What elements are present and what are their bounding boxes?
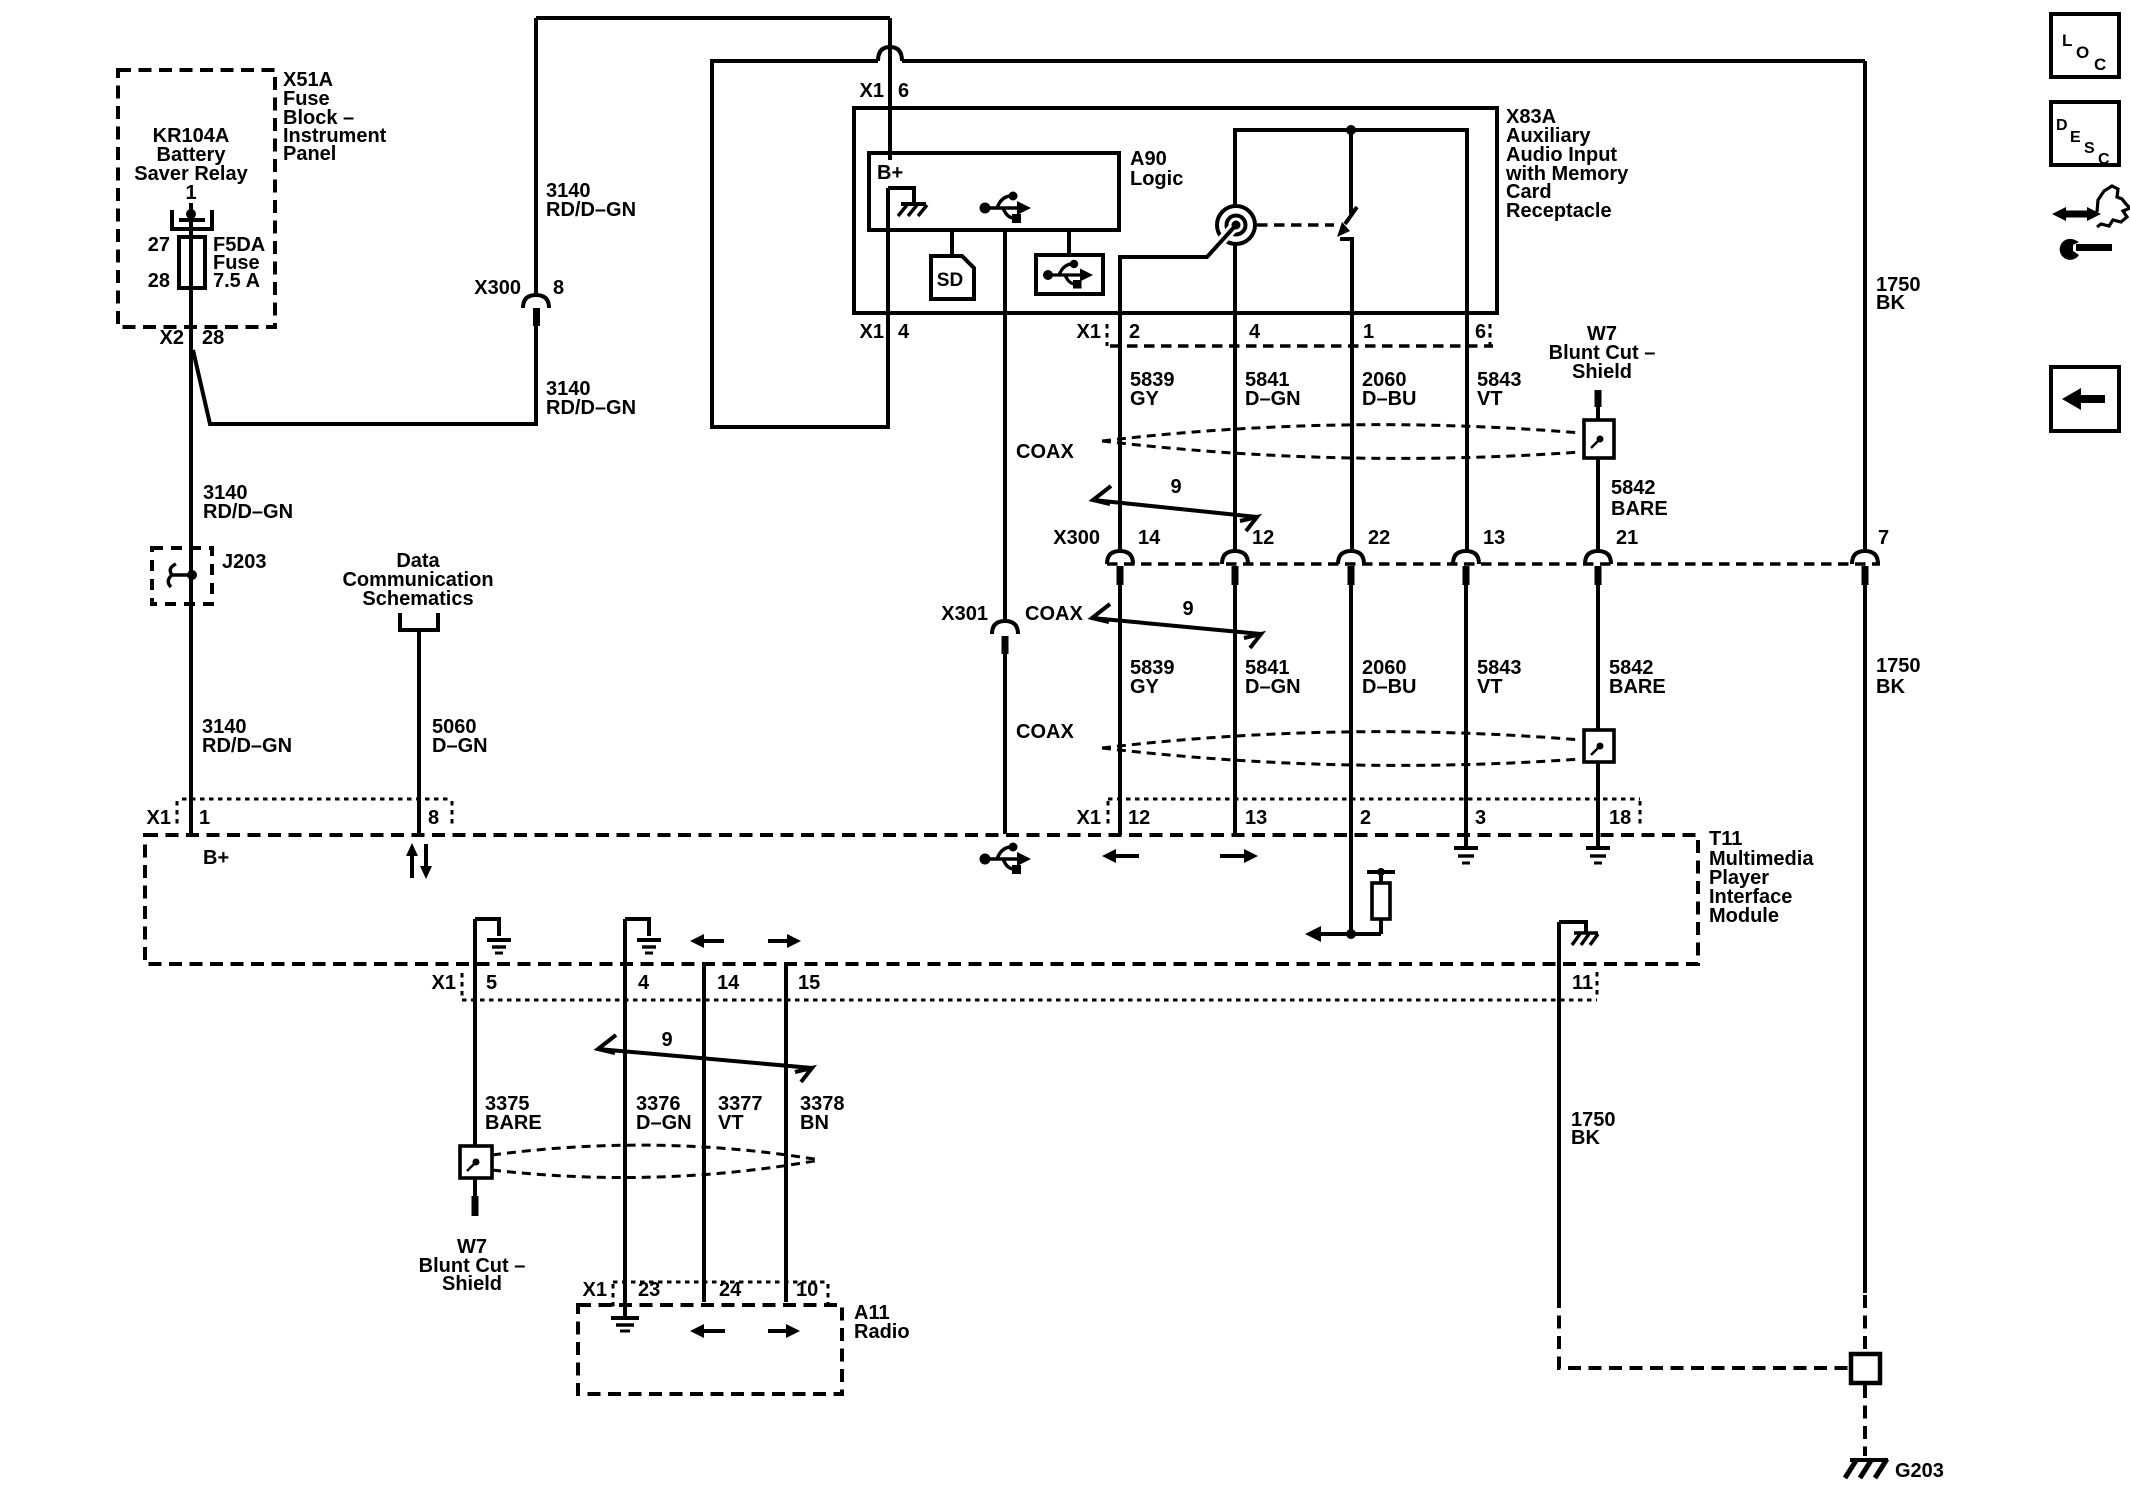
wire label 3140 RD/D-GN (below X300 8) <box>546 378 636 419</box>
svg-text:C: C <box>2094 55 2106 74</box>
LOC icon <box>2051 14 2119 77</box>
wire 5841 row 2 <box>1233 585 1237 835</box>
fuse block X51A dashed box <box>118 70 275 327</box>
wire label 3377 VT <box>718 1093 763 1134</box>
svg-text:SD: SD <box>937 270 963 291</box>
arrow left (pin 14) <box>690 934 724 948</box>
USB symbol in A90 <box>980 192 1032 224</box>
wire label 3378 BN <box>800 1093 845 1134</box>
svg-text:Logic: Logic <box>1130 168 1183 190</box>
pin 4 ground (in T11) <box>625 919 661 953</box>
svg-text:X1: X1 <box>1077 807 1101 829</box>
svg-text:RD/D–GN: RD/D–GN <box>546 199 636 221</box>
wire USB data (to X301) <box>1003 230 1007 621</box>
svg-text:9: 9 <box>1182 598 1193 620</box>
svg-text:12: 12 <box>1128 807 1150 829</box>
svg-text:5842: 5842 <box>1611 477 1656 499</box>
switch blade <box>1337 207 1357 551</box>
termination resistor branch (pin 2) <box>1305 868 1395 942</box>
USB receptacle stub wire <box>1067 230 1071 255</box>
wire hop over crossing <box>878 47 902 61</box>
svg-text:1750: 1750 <box>1876 655 1921 677</box>
svg-text:12: 12 <box>1252 527 1274 549</box>
pin 11 label and bracket <box>1572 972 1597 999</box>
X300 terminal pin 13 <box>1453 551 1479 585</box>
svg-text:X1: X1 <box>1077 321 1101 343</box>
fuse F5DA <box>179 237 205 288</box>
wire label 3140 RD/D-GN (below J203) <box>202 716 292 757</box>
A11 radio labels <box>854 1302 910 1343</box>
shield termination box (top) <box>1584 420 1614 458</box>
wire label 5843 VT (row 2) <box>1477 657 1522 698</box>
svg-text:Schematics: Schematics <box>362 588 473 610</box>
svg-text:6: 6 <box>1475 321 1486 343</box>
relay KR104A contact <box>172 209 212 229</box>
T11 module labels <box>1709 828 1814 927</box>
svg-text:X2: X2 <box>160 327 184 349</box>
wire label 1750 BK (pin 11 run) <box>1571 1109 1616 1149</box>
svg-text:COAX: COAX <box>1025 603 1083 625</box>
shield termination box (row 2) <box>1584 730 1614 762</box>
svg-text:8: 8 <box>428 807 439 829</box>
wire label 1750 BK (upper) <box>1876 274 1921 314</box>
svg-text:BARE: BARE <box>485 1112 542 1134</box>
svg-text:RD/D–GN: RD/D–GN <box>203 501 293 523</box>
jack tip wire to pin 2 <box>1120 225 1236 551</box>
svg-text:D–GN: D–GN <box>432 735 488 757</box>
svg-text:28: 28 <box>148 270 170 292</box>
svg-text:VT: VT <box>1477 676 1503 698</box>
SD card receptacle <box>931 256 974 299</box>
wire 3140 from top to X300 8 <box>534 18 538 295</box>
svg-text:D–BU: D–BU <box>1362 388 1416 410</box>
svg-text:10: 10 <box>796 1279 818 1301</box>
svg-text:7: 7 <box>1878 527 1889 549</box>
G203 ground symbol <box>1845 1459 1888 1478</box>
fuse value label F5DA Fuse 7.5 A <box>213 234 265 292</box>
T11 X1 left pin labels <box>147 807 440 829</box>
svg-text:5: 5 <box>486 972 497 994</box>
svg-text:VT: VT <box>1477 388 1503 410</box>
X300 terminal pin 22 <box>1338 551 1364 585</box>
wire ground bus (X83A pin 4 loop to right side) <box>712 61 1865 427</box>
svg-text:Shield: Shield <box>442 1273 502 1295</box>
wire USB below X301 <box>1003 654 1007 834</box>
svg-text:11: 11 <box>1572 972 1593 994</box>
wire 5839 row 2 <box>1118 585 1122 835</box>
svg-text:22: 22 <box>1368 527 1390 549</box>
svg-text:2: 2 <box>1360 807 1371 829</box>
wire 3140 RD/D-GN main vertical <box>189 203 193 835</box>
service icon (car with arrow and wrench) <box>2052 186 2130 260</box>
X51A fuse block label <box>283 69 387 165</box>
wire 1750 BK from pin 11 <box>1557 922 1561 1295</box>
svg-text:X1: X1 <box>432 972 456 994</box>
wire label 5841 D-GN (row 1) <box>1245 369 1301 410</box>
svg-text:BK: BK <box>1876 676 1905 698</box>
wire label 5843 VT (row 1) <box>1477 369 1522 410</box>
svg-text:D–GN: D–GN <box>1245 676 1301 698</box>
wire label 5839 GY (row 2) <box>1130 657 1175 698</box>
svg-text:B+: B+ <box>877 162 903 184</box>
wire label 5842 BARE (row 2) <box>1609 657 1666 698</box>
connector X2 pin 28 labels <box>160 327 225 349</box>
svg-text:X301: X301 <box>941 603 988 625</box>
wire top power horizontal <box>536 16 890 20</box>
X83A labels <box>1505 106 1629 222</box>
connector X300 row dashed line <box>1107 562 1880 565</box>
KR104A battery saver relay label <box>134 125 248 204</box>
data communication schematics label <box>342 550 493 610</box>
shield ellipse (row 1) <box>1102 425 1581 459</box>
X300 terminal pin 14 <box>1107 551 1133 585</box>
svg-text:18: 18 <box>1609 807 1631 829</box>
X300 terminal pin 12 <box>1222 551 1248 585</box>
T11 X1 connector row (right segment pins 12-18) <box>1108 799 1640 827</box>
dashed ground run to G203 junction <box>1559 1295 1850 1368</box>
shield termination box (bottom W7) <box>460 1146 492 1178</box>
serial data up/down arrows (pin 8) <box>406 843 432 879</box>
svg-text:23: 23 <box>638 1279 660 1301</box>
USB symbol in receptacle <box>1043 260 1093 289</box>
svg-text:D–BU: D–BU <box>1362 676 1416 698</box>
wire 3377 VT <box>702 964 706 1302</box>
svg-text:J203: J203 <box>222 551 267 573</box>
svg-text:Radio: Radio <box>854 1321 910 1343</box>
svg-text:6: 6 <box>898 80 909 102</box>
svg-text:9: 9 <box>661 1029 672 1051</box>
connector X1 row dashed line <box>1107 324 1493 346</box>
wire label 3375 BARE <box>485 1093 542 1134</box>
A11 X1 connector row <box>613 1282 828 1308</box>
audio jack connector symbol <box>1217 206 1255 244</box>
twisted cable slash 2 <box>1092 604 1261 648</box>
wire 5060 D-GN <box>417 630 421 835</box>
svg-text:1: 1 <box>185 182 196 204</box>
svg-text:X1: X1 <box>147 807 171 829</box>
switch wire from junction <box>1349 130 1353 214</box>
svg-text:E: E <box>2070 129 2081 146</box>
arrow right (pin 15) <box>768 934 801 948</box>
svg-text:X1: X1 <box>860 321 884 343</box>
X300 row labels <box>1053 527 1889 549</box>
T11 X1 bottom connector row <box>462 973 1597 1000</box>
svg-text:3: 3 <box>1475 807 1486 829</box>
wire label 5060 D-GN <box>432 716 488 757</box>
svg-text:VT: VT <box>718 1112 744 1134</box>
shield ellipse (row 2) <box>1102 732 1581 766</box>
svg-text:8: 8 <box>553 277 564 299</box>
wire 5842 shield (to X300 21) <box>1596 458 1600 551</box>
svg-text:4: 4 <box>1249 321 1261 343</box>
W7 blunt cut stub (bottom) <box>472 1178 479 1216</box>
A90 internal chassis ground <box>888 188 927 216</box>
DESC icon <box>2051 102 2119 168</box>
svg-text:RD/D–GN: RD/D–GN <box>202 735 292 757</box>
pin 11 internal chassis ground <box>1559 922 1598 945</box>
fuse pin labels 27 28 <box>148 234 170 292</box>
G203 junction block <box>1851 1354 1880 1383</box>
A11 radio dashed box <box>578 1305 842 1394</box>
wire B+ feed vertical <box>888 18 892 160</box>
wire label 3140 RD/D-GN (below X2 28) <box>203 482 293 523</box>
wire 3378 BN <box>784 964 788 1302</box>
splice J203 symbol <box>168 564 197 587</box>
dashed ground run right side <box>1863 1295 1867 1456</box>
A11 pin labels <box>583 1279 819 1301</box>
wire 5843 row 2 <box>1464 585 1468 847</box>
connector X301 terminal <box>992 621 1018 654</box>
svg-text:X1: X1 <box>583 1279 607 1301</box>
wire label 2060 D-BU (row 2) <box>1362 657 1416 698</box>
svg-text:14: 14 <box>717 972 740 994</box>
X300 terminal pin 21 <box>1585 551 1611 585</box>
data communication bracket <box>400 613 438 630</box>
svg-text:X300: X300 <box>474 277 521 299</box>
connector X1 pin 4 labels (X83A bottom left) <box>860 321 910 343</box>
svg-text:BN: BN <box>800 1112 829 1134</box>
ground (pin 18) <box>1586 848 1610 863</box>
arrow right in A11 (pin 10) <box>768 1324 800 1338</box>
wire 5842 row 2 lower <box>1596 762 1600 847</box>
X83A auxiliary audio input box <box>854 108 1497 313</box>
USB symbol at T11 <box>980 843 1032 875</box>
wire label 3376 D-GN <box>636 1093 692 1134</box>
jack loop wire <box>1235 130 1467 551</box>
svg-text:D–GN: D–GN <box>636 1112 692 1134</box>
svg-text:13: 13 <box>1483 527 1505 549</box>
svg-text:21: 21 <box>1616 527 1638 549</box>
svg-text:GY: GY <box>1130 388 1160 410</box>
W7 blunt cut shield labels (top) <box>1549 323 1656 383</box>
svg-text:COAX: COAX <box>1016 721 1074 743</box>
switch mechanical dashed link <box>1257 223 1334 226</box>
svg-text:BARE: BARE <box>1609 676 1666 698</box>
svg-text:C: C <box>2098 151 2110 168</box>
svg-text:G203: G203 <box>1895 1460 1944 1482</box>
svg-text:S: S <box>2084 140 2095 157</box>
svg-text:COAX: COAX <box>1016 441 1074 463</box>
svg-text:4: 4 <box>898 321 910 343</box>
W7 blunt cut stub (top) <box>1595 390 1602 407</box>
svg-text:B+: B+ <box>203 847 229 869</box>
T11 X1 right pin labels <box>1077 807 1632 829</box>
T11 X1 connector row (left segment pins 1,8) <box>177 799 452 827</box>
pin 5 ground (in T11) <box>475 919 511 953</box>
wire label 2060 D-BU (row 1) <box>1362 369 1416 410</box>
svg-text:2: 2 <box>1129 321 1140 343</box>
wire label 5842 BARE (row 1) <box>1611 477 1668 520</box>
svg-text:Receptacle: Receptacle <box>1506 200 1612 222</box>
svg-text:14: 14 <box>1138 527 1161 549</box>
wire label 5841 D-GN (row 2) <box>1245 657 1301 698</box>
SD card stub wire <box>950 230 954 256</box>
wire 5842 row 2 upper <box>1596 585 1600 730</box>
wire label 1750 BK (row 2) <box>1876 655 1921 698</box>
T11 multimedia player interface module dashed box <box>145 835 1698 964</box>
wire 2060 row 2 <box>1349 585 1353 934</box>
wire below jack (pin 4 / 5841) <box>1233 245 1237 551</box>
svg-text:24: 24 <box>719 1279 742 1301</box>
svg-text:RD/D–GN: RD/D–GN <box>546 397 636 419</box>
svg-text:A90: A90 <box>1130 148 1167 170</box>
svg-text:9: 9 <box>1170 476 1181 498</box>
A90 logic label <box>1130 148 1183 190</box>
X300 terminal pin 7 <box>1852 551 1878 585</box>
svg-text:D–GN: D–GN <box>1245 388 1301 410</box>
splice J203 dashed box <box>152 548 212 604</box>
wire 1750 BK right side <box>1863 61 1867 1293</box>
wire branch from splice to X300 pin 8 <box>193 325 536 424</box>
svg-text:T11: T11 <box>1709 828 1742 850</box>
svg-text:X300: X300 <box>1053 527 1100 549</box>
connector X300 pin 8 terminal <box>523 295 549 326</box>
svg-text:Shield: Shield <box>1572 361 1632 383</box>
connector X1 row pins 2 4 1 6 labels <box>1077 321 1487 343</box>
svg-text:BARE: BARE <box>1611 498 1668 520</box>
svg-text:15: 15 <box>798 972 820 994</box>
svg-text:13: 13 <box>1245 807 1267 829</box>
connector X300 pin 8 labels <box>474 277 564 299</box>
svg-text:Module: Module <box>1709 905 1779 927</box>
connector X1 pin 6 labels <box>860 80 910 102</box>
svg-text:1: 1 <box>1363 321 1374 343</box>
USB receptacle box <box>1036 255 1103 294</box>
wire 3376 D-GN <box>623 919 627 1316</box>
svg-text:1: 1 <box>199 807 210 829</box>
arrow left in A11 (pin 24) <box>690 1324 725 1338</box>
svg-text:D: D <box>2056 117 2068 134</box>
shield ellipse (bottom) <box>492 1145 820 1177</box>
svg-text:Panel: Panel <box>283 143 336 165</box>
svg-text:GY: GY <box>1130 676 1160 698</box>
arrow left (pin 12) <box>1102 849 1139 863</box>
A90 logic box <box>869 153 1119 230</box>
svg-text:X1: X1 <box>860 80 884 102</box>
svg-text:27: 27 <box>148 234 170 256</box>
twisted cable slash 3 <box>598 1035 812 1082</box>
ground (pin 3) <box>1454 848 1478 863</box>
wire label 5839 GY (row 1) <box>1130 369 1175 410</box>
svg-text:7.5 A: 7.5 A <box>213 270 260 292</box>
arrow right (pin 13) <box>1220 849 1258 863</box>
W7 blunt cut labels (bottom) <box>419 1236 526 1295</box>
svg-text:L: L <box>2062 31 2072 50</box>
wire label 3140 RD/D-GN (upper right) <box>546 180 636 221</box>
svg-text:BK: BK <box>1876 292 1905 314</box>
twisted cable slash 1 <box>1093 486 1257 531</box>
svg-text:O: O <box>2076 43 2089 62</box>
svg-text:BK: BK <box>1571 1127 1600 1149</box>
ground in A11 (pin 23) <box>611 1318 639 1331</box>
junction dot on loop <box>1346 125 1356 135</box>
back arrow icon <box>2051 367 2119 431</box>
wire 3375 shield <box>473 919 477 1146</box>
T11 bottom pin labels <box>432 972 821 994</box>
svg-text:4: 4 <box>638 972 650 994</box>
svg-text:28: 28 <box>202 327 224 349</box>
shield wire to termination box <box>1596 407 1600 420</box>
